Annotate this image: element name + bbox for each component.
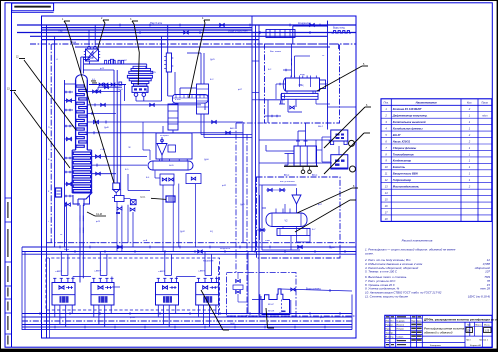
svg-text:Холодильник флегмы: Холодильник флегмы <box>392 126 423 130</box>
instrument box dark <box>166 196 175 202</box>
valve on column left 2 <box>67 137 72 140</box>
valves on long runs <box>118 24 315 254</box>
wire left bus verticals <box>22 247 25 330</box>
wire right branch <box>328 106 357 108</box>
wire E2 E3 connections <box>276 83 330 104</box>
svg-text:Кол.: Кол. <box>467 101 472 105</box>
svg-text:Смирн.: Смирн. <box>397 336 405 338</box>
wire steam header 1c <box>42 29 253 31</box>
wire riser pair to U3 <box>187 53 204 84</box>
wire double pipe elbow to risers <box>201 114 252 138</box>
svg-text:ДУ: ДУ <box>467 330 471 333</box>
leader line 7 <box>324 133 370 174</box>
wire mid bus 2 <box>22 251 356 253</box>
column left fittings <box>65 91 74 198</box>
svg-text:Колонна К4 14Х18Н9Т: Колонна К4 14Х18Н9Т <box>393 107 422 111</box>
svg-text:ВН-2Г: ВН-2Г <box>393 133 401 137</box>
svg-text:Ду50: Ду50 <box>230 323 236 325</box>
wire left riser <box>54 36 56 247</box>
svg-text:Прим.: Прим. <box>482 102 489 105</box>
svg-text:Расход компонентов: Расход компонентов <box>402 239 433 243</box>
svg-text:Вода охлажд.: Вода охлажд. <box>306 288 321 291</box>
valve on column left 3 <box>67 182 72 185</box>
valve draw-off 2 <box>87 90 120 93</box>
svg-text:Пар 6 атм: Пар 6 атм <box>150 21 162 25</box>
wire return line 87 <box>98 86 122 90</box>
wire main riser 2 <box>255 25 257 252</box>
flanged pipe row <box>84 59 147 64</box>
wire bottom dashdot bus <box>22 320 352 322</box>
leader line 1 <box>62 18 114 183</box>
column K1 trays upper <box>76 85 87 147</box>
svg-text:ВУ-6Е: ВУ-6Е <box>268 311 275 313</box>
wire elbow line x128 <box>128 174 150 191</box>
svg-text:1ВУС (по 8.19.4): 1ВУС (по 8.19.4) <box>468 295 490 299</box>
vacuum unit U5 <box>329 130 349 145</box>
svg-text:ВВЦ: ВВЦ <box>299 85 304 87</box>
column K1 trays lower <box>73 152 90 192</box>
wire draw-off 4 <box>87 112 116 115</box>
svg-text:ВН-2: ВН-2 <box>318 126 324 128</box>
svg-text:ф108: ф108 <box>130 316 136 319</box>
valve draw-off 5 <box>87 120 243 123</box>
valve on column left 1 <box>67 99 72 102</box>
wire main riser 1 <box>251 16 253 252</box>
svg-text:Вак. линия: Вак. линия <box>270 51 282 53</box>
bus fitting ticks mid <box>60 246 345 253</box>
wire dashdot branch down <box>338 44 340 49</box>
reflux drum V1 <box>148 155 193 170</box>
wire B1 inlet <box>285 151 295 165</box>
pump enclosure box <box>156 126 192 159</box>
wire water header 3 <box>30 35 328 37</box>
wire draw-off 3 to riser <box>87 103 201 106</box>
svg-text:Разраб.: Разраб. <box>386 325 394 327</box>
svg-text:нет 28: нет 28 <box>480 287 490 291</box>
wire bottom bus 4 <box>22 326 352 328</box>
svg-text:Насос Х20/31: Насос Х20/31 <box>393 139 411 143</box>
bus fitting ticks bottom <box>40 312 340 328</box>
svg-text:Ду50: Ду50 <box>118 89 124 91</box>
wire control dashdot elbow <box>236 122 265 124</box>
pump skid B1 <box>284 141 318 177</box>
wire A1 supply drops <box>89 25 95 46</box>
wire E3 outlet piping <box>265 59 303 124</box>
svg-text:11. Степень защиты по башне: 11. Степень защиты по башне <box>365 295 408 299</box>
terminal strip marks <box>332 31 352 33</box>
inline strainer U4 <box>164 53 173 72</box>
svg-text:Вода: Вода <box>64 249 70 251</box>
wire control dashdot vertical 1 <box>235 123 237 273</box>
left margin column cells <box>5 198 12 345</box>
svg-text:Масш.: Масш. <box>484 325 491 327</box>
unit enclosure dash-dot box 2 <box>257 177 341 258</box>
wire mid bus 1 <box>22 246 356 248</box>
pump house dashed enclosure <box>46 258 220 310</box>
technical data text block <box>364 239 490 299</box>
svg-text:Дефлегматор кожухотр.: Дефлегматор кожухотр. <box>392 114 428 118</box>
reflux pump P1 funnel <box>157 137 176 155</box>
svg-text:Иванов: Иванов <box>397 325 405 327</box>
leader line 9 <box>295 200 356 232</box>
svg-text:АВО: АВО <box>230 127 235 130</box>
svg-text:5. Темпер. в т-ке 100 С: 5. Темпер. в т-ке 100 С <box>365 270 398 274</box>
svg-text:ВУ-6Г: ВУ-6Г <box>268 304 275 306</box>
wire draw-off 6 <box>87 131 243 134</box>
svg-text:т.140: т.140 <box>100 149 106 151</box>
svg-text:Петров: Петров <box>397 329 405 331</box>
wire U5 U6 connections <box>322 137 339 162</box>
wire column right single riser <box>120 90 122 196</box>
svg-text:107: 107 <box>485 270 490 274</box>
wire column right riser pair <box>83 70 117 183</box>
pump unit N2b <box>196 252 219 328</box>
leader Sl-M label <box>87 212 106 216</box>
leader line 3 <box>130 18 139 85</box>
column K1 top vapour pipe <box>81 57 90 74</box>
wire left feed pipe <box>46 25 48 338</box>
vacuum pump dash-dot enclosure <box>227 273 297 317</box>
svg-text:Ду40: Ду40 <box>104 127 110 129</box>
extra tiny labels 2 <box>48 55 336 325</box>
subcooler E3 <box>279 91 318 104</box>
wire bottom connectors <box>47 258 353 338</box>
wire box2 extra piping <box>257 185 311 242</box>
vacuum valve group <box>233 273 248 303</box>
svg-text:возд: возд <box>300 74 305 76</box>
utility line y47 <box>75 46 330 48</box>
wire column left stub 1 <box>65 100 76 102</box>
wire dashdot riser x247 <box>246 135 248 317</box>
svg-text:Наименование: Наименование <box>416 101 438 105</box>
wire main riser 3 <box>258 25 260 317</box>
buffer vessel V3 <box>113 183 120 196</box>
svg-text:Ду25: Ду25 <box>210 59 216 61</box>
svg-text:Вода, конд.: Вода, конд. <box>333 27 346 29</box>
top-left corner stamp box <box>12 3 54 12</box>
svg-text:в атм: в атм <box>175 99 181 101</box>
svg-text:Пров.: Пров. <box>386 329 392 331</box>
svg-text:н/ст: н/ст <box>482 115 487 118</box>
svg-text:Подп: Подп <box>411 320 416 322</box>
svg-text:ФР: ФР <box>124 59 128 62</box>
wire riser crossties <box>252 61 259 100</box>
wire E1 inlet from manifold <box>125 84 162 101</box>
svg-text:Вакуум-насос ВВН: Вакуум-насос ВВН <box>393 172 418 176</box>
cooler E4 <box>277 227 310 236</box>
svg-text:Ду50: Ду50 <box>204 159 210 161</box>
wire risers to vacuum units <box>259 140 332 163</box>
top header flange ticks <box>120 24 320 34</box>
motor circle M6 <box>350 166 356 172</box>
wire bottom bus 3 <box>22 324 352 326</box>
heat exchanger E1 <box>173 72 209 110</box>
leader line 10 <box>201 290 229 330</box>
wire lower dashdot cross line <box>227 315 357 317</box>
svg-text:Конденсатор: Конденсатор <box>393 159 412 163</box>
svg-text:Пар: Пар <box>58 29 63 33</box>
unit enclosure dash-dot box 1 <box>265 44 340 123</box>
wire V1 outlet assemblies <box>155 171 201 252</box>
svg-text:Лит: Лит <box>467 325 471 327</box>
svg-text:слив: слив <box>265 240 271 242</box>
svg-text:солее.: солее. <box>365 251 374 255</box>
wire mid bus 3 <box>22 253 356 255</box>
wire steam header 2 <box>17 32 356 34</box>
svg-text:1. Ректификат — спирт этиловый: 1. Ректификат — спирт этиловый оборотн. … <box>365 248 456 252</box>
svg-text:Гидрозатвор: Гидрозатвор <box>393 178 412 182</box>
title block frame <box>385 315 492 347</box>
pump house labels <box>55 260 214 274</box>
parts list table <box>381 99 492 222</box>
valve cluster VC1 <box>112 196 136 252</box>
svg-text:Сборник флегмы: Сборник флегмы <box>393 146 417 150</box>
wire pump group cross connections <box>73 277 220 288</box>
title block texts <box>386 316 498 347</box>
svg-text:Утв.: Утв. <box>386 340 391 342</box>
svg-text:№ докум.: № докум. <box>397 319 406 322</box>
wire water header 4 <box>42 39 260 41</box>
wire cooling water line <box>281 288 352 292</box>
wire control dash-dot header <box>30 43 356 45</box>
svg-text:КР-25: КР-25 <box>150 72 157 74</box>
svg-text:Формат А1: Формат А1 <box>470 344 482 347</box>
svg-text:Кипятильник выносной: Кипятильник выносной <box>393 120 426 124</box>
wire V1 feed from E1 <box>143 122 150 160</box>
vacuum pump unit U7 <box>262 289 291 315</box>
svg-text:вак. установка: вак. установка <box>280 181 295 183</box>
svg-text:Сл-М: Сл-М <box>96 213 102 216</box>
svg-text:Лст: Лст <box>391 320 394 322</box>
svg-text:Ду32: Ду32 <box>180 231 186 233</box>
svg-text:конденсат: конденсат <box>220 248 230 250</box>
pump unit N1b <box>91 252 114 328</box>
svg-text:Маслоотделитель: Маслоотделитель <box>393 185 420 189</box>
wire column draw-off 1 <box>89 82 126 86</box>
svg-text:Вода оборотная: Вода оборотная <box>228 29 248 33</box>
vacuum unit U6 <box>331 155 349 169</box>
svg-text:пром.: пром. <box>140 197 146 199</box>
wire steam header 1b <box>42 27 253 29</box>
wire E2 nozzles <box>283 44 310 77</box>
svg-text:Листов 1: Листов 1 <box>479 340 489 342</box>
svg-text:Теплообменник: Теплообменник <box>393 152 415 156</box>
wire condensate line down <box>293 21 346 130</box>
svg-text:Ду40: Ду40 <box>330 247 336 249</box>
wire U7 left pipe <box>252 294 262 314</box>
svg-text:Копировал: Копировал <box>430 345 442 347</box>
instrument block at column base <box>56 188 62 197</box>
pump unit N2a <box>156 252 179 328</box>
wire draw-off 9 <box>92 172 116 175</box>
wire riser to vacuum unit <box>247 252 249 314</box>
svg-text:Поз.: Поз. <box>384 101 389 105</box>
wire bottom bus 2 <box>22 316 352 318</box>
schematic area frame <box>42 16 357 338</box>
header manifold box <box>266 30 295 38</box>
svg-text:обвязкой с обвязкой: обвязкой с обвязкой <box>424 331 453 335</box>
leader promyvka <box>140 197 166 200</box>
motor circle M5 <box>349 140 355 146</box>
column bottom outlet piping <box>65 195 89 283</box>
svg-text:гр.А: гр.А <box>143 239 148 242</box>
condenser E2 shell <box>283 76 325 92</box>
wire B1 top pipes <box>266 123 322 151</box>
inline unit U3 <box>197 84 209 114</box>
black weld ticks <box>91 81 97 84</box>
svg-text:Емкость: Емкость <box>393 165 406 169</box>
header labels <box>58 21 311 44</box>
leader line 8 <box>297 185 358 213</box>
svg-text:Ду80: Ду80 <box>60 317 66 319</box>
wire downcomer x243 <box>242 122 244 243</box>
svg-text:на орош.: на орош. <box>160 135 169 137</box>
svg-text:KQ: KQ <box>210 231 213 233</box>
wire center riser pair <box>162 25 173 101</box>
receiver vessel V2 <box>266 209 307 227</box>
column K1 shell <box>72 75 91 206</box>
svg-text:Н.контр.: Н.контр. <box>386 336 395 338</box>
column K1 left service pipe <box>65 80 76 247</box>
wire control dashdot vertical 2 <box>218 266 220 316</box>
leader line 2 <box>98 17 110 50</box>
svg-text:1:25: 1:25 <box>485 330 490 333</box>
control valve manifold M1 <box>127 64 152 96</box>
svg-text:Т.контр.: Т.контр. <box>386 332 394 334</box>
pump unit N1a <box>52 252 75 328</box>
leader line 5 <box>317 63 368 91</box>
svg-text:Лист: Лист <box>466 340 471 342</box>
scattered equipment labels <box>48 51 324 251</box>
separator funnel T2 <box>292 188 301 213</box>
wire left dashdot riser <box>50 44 52 243</box>
wire riser branch right <box>259 99 285 101</box>
wire box2 internal piping <box>262 185 300 250</box>
svg-text:ДП4Ум. распределение колонны р: ДП4Ум. распределение колонны ректификаци… <box>424 317 498 321</box>
wire draw-off 8 <box>92 164 147 167</box>
svg-text:Ду25: Ду25 <box>240 204 246 206</box>
leader line 13 <box>7 89 70 169</box>
leader line 4 <box>189 17 210 98</box>
wire feed line 7 <box>92 155 147 158</box>
wire bottom bus 1 <box>22 313 352 315</box>
wire bottom bus 5 <box>22 329 352 331</box>
wire mid dashdot bus <box>47 242 357 244</box>
leader line 6 <box>324 104 371 148</box>
wire steam header 1 <box>17 24 356 26</box>
condensate cooler U9 <box>168 103 178 133</box>
svg-text:Масса: Масса <box>476 325 483 327</box>
leader line 11 <box>266 308 274 328</box>
ejector unit A1 <box>84 46 100 64</box>
leader line 12 <box>16 57 76 131</box>
